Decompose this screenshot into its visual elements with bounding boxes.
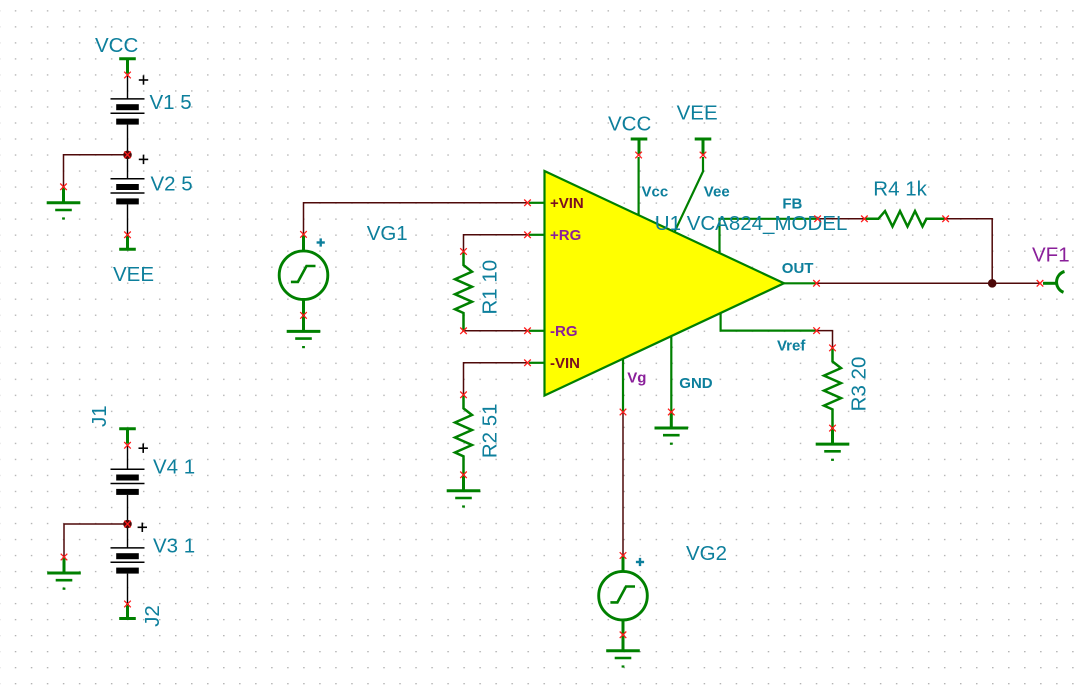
svg-text:-VIN: -VIN — [550, 355, 580, 372]
svg-text:FB: FB — [782, 196, 802, 213]
svg-text:+VIN: +VIN — [550, 195, 584, 212]
svg-text:VEE: VEE — [113, 263, 154, 286]
svg-text:V3 1: V3 1 — [153, 535, 195, 558]
svg-text:R2 51: R2 51 — [479, 403, 502, 458]
svg-text:Vcc: Vcc — [642, 184, 669, 201]
svg-text:VEE: VEE — [677, 101, 718, 124]
svg-text:J2: J2 — [141, 605, 164, 627]
svg-text:V4 1: V4 1 — [153, 455, 195, 478]
svg-text:VF1: VF1 — [1032, 244, 1070, 267]
svg-text:V1 5: V1 5 — [150, 91, 192, 114]
svg-text:Vg: Vg — [627, 370, 646, 387]
svg-text:VG2: VG2 — [686, 542, 727, 565]
svg-text:VG1: VG1 — [367, 222, 408, 245]
svg-text:U1 VCA824_MODEL: U1 VCA824_MODEL — [655, 212, 848, 235]
svg-text:Vref: Vref — [777, 338, 806, 355]
svg-text:OUT: OUT — [782, 260, 814, 277]
svg-text:R3 20: R3 20 — [848, 357, 871, 412]
svg-text:VCC: VCC — [608, 113, 651, 136]
svg-text:+RG: +RG — [550, 227, 581, 244]
svg-text:Vee: Vee — [704, 184, 730, 201]
svg-text:R4 1k: R4 1k — [873, 178, 927, 201]
svg-text:GND: GND — [679, 375, 713, 392]
svg-text:VCC: VCC — [95, 34, 138, 57]
svg-text:J1: J1 — [88, 405, 111, 427]
svg-text:R1 10: R1 10 — [479, 260, 502, 315]
svg-text:-RG: -RG — [550, 323, 578, 340]
svg-text:V2 5: V2 5 — [151, 173, 193, 196]
